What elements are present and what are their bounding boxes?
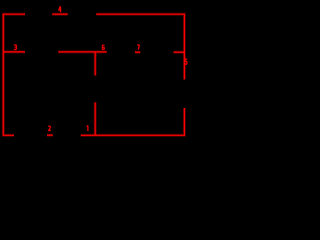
node label core strokes [14,6,187,131]
node label glow underlay [14,6,187,131]
wire glow underlay [3,14,185,135]
wire core strokes [3,14,185,135]
